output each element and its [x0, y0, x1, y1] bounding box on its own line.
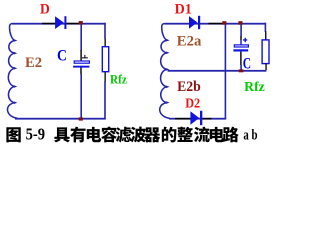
svg-text:D1: D1: [175, 1, 192, 17]
wire D2 output vertical: [225, 23, 227, 119]
capacitor C right plates: [234, 45, 248, 47]
diode D1: [189, 16, 197, 29]
svg-text:E2b: E2b: [177, 79, 201, 95]
svg-text:5-9: 5-9: [26, 125, 45, 144]
transformer windings E2a / E2b coil: [160, 24, 170, 119]
resistor Rfz left: [102, 47, 108, 72]
svg-text:Rfz: Rfz: [110, 72, 127, 87]
svg-text:D2: D2: [185, 96, 200, 111]
caption figure number: [6, 127, 20, 142]
capacitor C right plus mark: [243, 39, 247, 40]
transformer winding E2 coil: [8, 24, 18, 119]
resistor Rfz right: [262, 40, 269, 64]
wire center tap rail: [168, 70, 267, 72]
wire resistor top lead right: [265, 23, 267, 32]
wire top rail right: [165, 23, 266, 25]
svg-text:C: C: [57, 47, 67, 64]
capacitor C plus mark: [82, 57, 88, 58]
svg-text:Rfz: Rfz: [244, 79, 265, 94]
node junction capacitor top: [238, 21, 242, 25]
node junction capacitor bottom: [239, 69, 244, 72]
caption text: [54, 126, 239, 142]
svg-text:a b: a b: [243, 127, 257, 143]
node junction D2 top: [222, 21, 226, 25]
diode D leads: [42, 23, 56, 25]
diode D2 leads: [175, 118, 190, 120]
diode D2: [190, 111, 199, 124]
wire capacitor branch right: [240, 24, 242, 36]
wire top rail left: [12, 23, 106, 25]
wire bottom rail right: [169, 118, 226, 120]
svg-text:D: D: [40, 2, 50, 18]
wire bottom rail left: [15, 118, 106, 120]
node junction bottom left: [79, 117, 83, 120]
capacitor C plates: [74, 61, 89, 63]
wire capacitor branch: [80, 24, 82, 50]
svg-text:E2a: E2a: [177, 33, 202, 49]
svg-text:C: C: [243, 55, 251, 72]
node junction top left: [79, 21, 83, 25]
wire resistor top lead left: [104, 23, 106, 39]
svg-text:E2: E2: [25, 55, 42, 71]
diode D: [55, 16, 64, 29]
